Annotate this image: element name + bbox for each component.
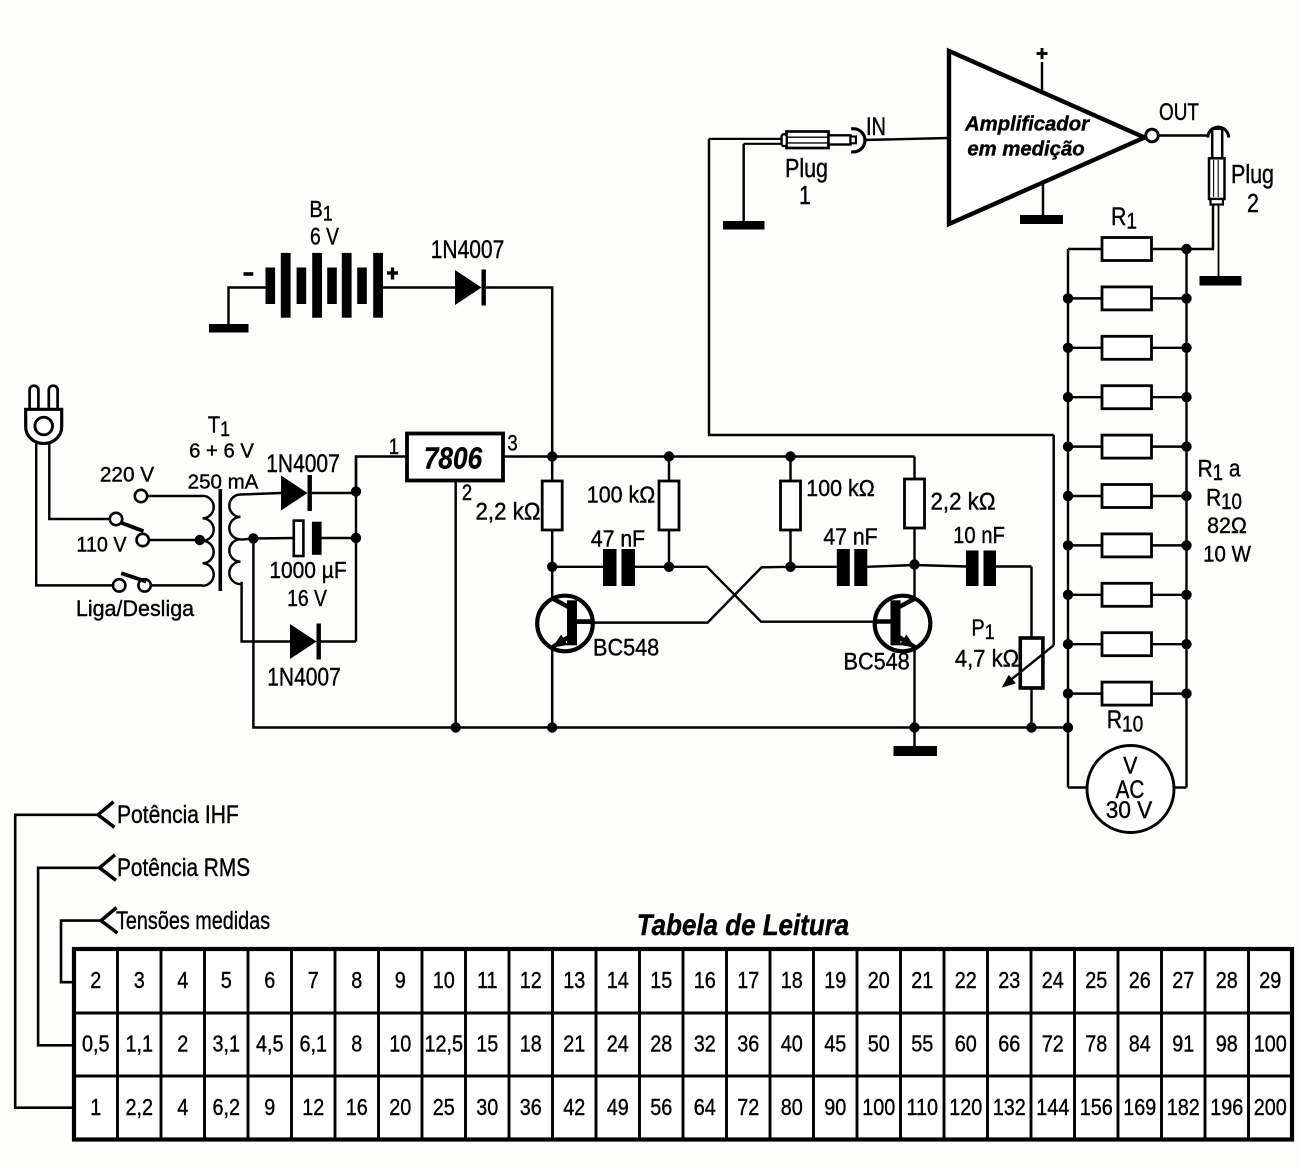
svg-text:R1: R1 xyxy=(1111,202,1137,234)
svg-text:72: 72 xyxy=(1042,1030,1064,1057)
svg-text:47 nF: 47 nF xyxy=(823,524,877,550)
svg-text:78: 78 xyxy=(1085,1030,1107,1057)
svg-text:3: 3 xyxy=(134,966,145,993)
svg-text:2: 2 xyxy=(462,482,472,506)
svg-text:36: 36 xyxy=(520,1093,542,1120)
svg-text:50: 50 xyxy=(868,1030,890,1057)
svg-text:15: 15 xyxy=(476,1030,498,1057)
svg-text:29: 29 xyxy=(1259,966,1281,993)
svg-text:56: 56 xyxy=(650,1093,672,1120)
svg-text:4: 4 xyxy=(177,1093,188,1120)
svg-text:4: 4 xyxy=(177,966,188,993)
svg-text:132: 132 xyxy=(993,1093,1026,1120)
svg-text:20: 20 xyxy=(389,1093,411,1120)
svg-text:16: 16 xyxy=(346,1093,368,1120)
svg-text:27: 27 xyxy=(1172,966,1194,993)
svg-text:1,1: 1,1 xyxy=(125,1030,153,1057)
svg-text:1: 1 xyxy=(389,436,399,460)
svg-text:IN: IN xyxy=(866,113,886,140)
svg-text:30 V: 30 V xyxy=(1106,796,1153,823)
svg-text:15: 15 xyxy=(650,966,672,993)
svg-text:19: 19 xyxy=(824,966,846,993)
svg-text:156: 156 xyxy=(1080,1093,1113,1120)
svg-text:220 V: 220 V xyxy=(100,464,154,487)
svg-text:Tabela de Leitura: Tabela de Leitura xyxy=(637,909,849,942)
svg-text:45: 45 xyxy=(824,1030,846,1057)
svg-text:91: 91 xyxy=(1172,1030,1194,1057)
svg-text:17: 17 xyxy=(737,966,759,993)
svg-text:24: 24 xyxy=(607,1030,629,1057)
svg-text:98: 98 xyxy=(1216,1030,1238,1057)
svg-text:9: 9 xyxy=(264,1093,275,1120)
svg-text:47 nF: 47 nF xyxy=(591,526,645,552)
svg-text:11: 11 xyxy=(477,966,498,993)
svg-text:4,7 kΩ: 4,7 kΩ xyxy=(955,645,1019,672)
svg-text:Tensões medidas: Tensões medidas xyxy=(116,906,270,935)
svg-text:200: 200 xyxy=(1254,1093,1287,1120)
svg-text:90: 90 xyxy=(824,1093,846,1120)
svg-text:21: 21 xyxy=(563,1030,585,1057)
svg-text:2: 2 xyxy=(1247,189,1259,219)
svg-text:BC548: BC548 xyxy=(844,648,910,675)
svg-text:169: 169 xyxy=(1123,1093,1156,1120)
svg-text:28: 28 xyxy=(1216,966,1238,993)
svg-text:100 kΩ: 100 kΩ xyxy=(806,475,874,501)
svg-text:R1 a: R1 a xyxy=(1198,454,1241,486)
svg-text:3,1: 3,1 xyxy=(212,1030,240,1057)
svg-text:8: 8 xyxy=(351,1030,362,1057)
svg-text:T1: T1 xyxy=(208,411,230,442)
svg-text:14: 14 xyxy=(607,966,629,993)
svg-text:196: 196 xyxy=(1210,1093,1243,1120)
svg-text:1: 1 xyxy=(90,1093,101,1120)
svg-text:2,2 kΩ: 2,2 kΩ xyxy=(931,488,996,515)
svg-text:10: 10 xyxy=(433,966,455,993)
svg-text:6 + 6 V: 6 + 6 V xyxy=(189,440,254,462)
svg-text:4,5: 4,5 xyxy=(256,1030,284,1057)
svg-text:25: 25 xyxy=(1085,966,1107,993)
svg-text:16: 16 xyxy=(694,966,716,993)
svg-text:1000 µF: 1000 µF xyxy=(269,557,346,583)
svg-text:100 kΩ: 100 kΩ xyxy=(587,482,655,508)
svg-text:6 V: 6 V xyxy=(310,222,339,250)
svg-text:R10: R10 xyxy=(1107,705,1144,737)
svg-text:3: 3 xyxy=(507,432,517,456)
svg-text:Plug: Plug xyxy=(1231,160,1274,190)
svg-text:6: 6 xyxy=(264,966,275,993)
svg-text:2,2: 2,2 xyxy=(125,1093,153,1120)
svg-text:5: 5 xyxy=(221,966,232,993)
svg-text:6,2: 6,2 xyxy=(212,1093,240,1120)
svg-text:16 V: 16 V xyxy=(287,585,327,611)
svg-text:60: 60 xyxy=(955,1030,977,1057)
svg-text:2,2 kΩ: 2,2 kΩ xyxy=(476,498,541,525)
svg-text:1N4007: 1N4007 xyxy=(267,663,341,691)
svg-text:10: 10 xyxy=(389,1030,411,1057)
svg-text:1N4007: 1N4007 xyxy=(266,449,340,477)
svg-text:72: 72 xyxy=(737,1093,759,1120)
svg-text:25: 25 xyxy=(433,1093,455,1120)
svg-text:110: 110 xyxy=(906,1093,938,1120)
svg-text:21: 21 xyxy=(911,966,933,993)
svg-text:49: 49 xyxy=(607,1093,629,1120)
svg-text:36: 36 xyxy=(737,1030,759,1057)
svg-text:2: 2 xyxy=(90,966,101,993)
svg-text:32: 32 xyxy=(694,1030,716,1057)
svg-text:120: 120 xyxy=(949,1093,982,1120)
svg-text:110 V: 110 V xyxy=(76,534,127,557)
svg-text:1: 1 xyxy=(799,181,811,211)
svg-text:182: 182 xyxy=(1167,1093,1200,1120)
svg-text:7806: 7806 xyxy=(424,442,483,476)
svg-text:82Ω: 82Ω xyxy=(1207,513,1247,539)
svg-text:28: 28 xyxy=(650,1030,672,1057)
svg-text:em medição: em medição xyxy=(967,138,1084,160)
svg-text:Amplificador: Amplificador xyxy=(964,113,1090,135)
svg-text:64: 64 xyxy=(694,1093,716,1120)
svg-text:13: 13 xyxy=(563,966,585,993)
svg-text:55: 55 xyxy=(911,1030,933,1057)
svg-text:100: 100 xyxy=(862,1093,895,1120)
svg-text:OUT: OUT xyxy=(1159,98,1199,126)
svg-text:BC548: BC548 xyxy=(593,634,659,661)
svg-text:Potência IHF: Potência IHF xyxy=(117,800,239,828)
svg-text:0,5: 0,5 xyxy=(82,1030,110,1057)
svg-text:9: 9 xyxy=(395,966,406,993)
svg-text:40: 40 xyxy=(781,1030,803,1057)
svg-text:22: 22 xyxy=(955,966,977,993)
svg-text:1N4007: 1N4007 xyxy=(431,235,505,263)
svg-text:7: 7 xyxy=(308,966,319,993)
svg-text:30: 30 xyxy=(476,1093,498,1120)
svg-text:80: 80 xyxy=(781,1093,803,1120)
svg-text:100: 100 xyxy=(1254,1030,1287,1057)
svg-text:250 mA: 250 mA xyxy=(188,471,259,494)
svg-text:144: 144 xyxy=(1036,1093,1069,1120)
svg-text:26: 26 xyxy=(1129,966,1151,993)
svg-text:20: 20 xyxy=(868,966,890,993)
svg-text:R10: R10 xyxy=(1206,483,1242,515)
svg-text:18: 18 xyxy=(520,1030,542,1057)
svg-text:6,1: 6,1 xyxy=(299,1030,327,1057)
svg-text:12: 12 xyxy=(520,966,542,993)
svg-text:84: 84 xyxy=(1129,1030,1151,1057)
svg-text:8: 8 xyxy=(351,966,362,993)
svg-text:23: 23 xyxy=(998,966,1020,993)
svg-text:42: 42 xyxy=(563,1093,585,1120)
svg-text:10 W: 10 W xyxy=(1203,542,1251,567)
svg-text:66: 66 xyxy=(998,1030,1020,1057)
svg-text:Liga/Desliga: Liga/Desliga xyxy=(76,596,195,622)
svg-text:18: 18 xyxy=(781,966,803,993)
svg-text:Potência RMS: Potência RMS xyxy=(117,853,250,881)
svg-text:12,5: 12,5 xyxy=(424,1030,463,1057)
svg-text:10 nF: 10 nF xyxy=(953,522,1005,549)
svg-text:P1: P1 xyxy=(971,614,994,645)
svg-text:2: 2 xyxy=(177,1030,188,1057)
svg-text:24: 24 xyxy=(1042,966,1064,993)
svg-text:Plug: Plug xyxy=(785,154,828,184)
svg-text:12: 12 xyxy=(302,1093,324,1120)
